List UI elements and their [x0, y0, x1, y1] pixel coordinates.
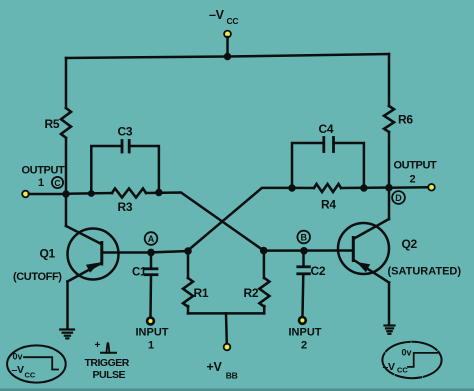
junction C3 left — [88, 190, 95, 197]
junction node D — [385, 184, 393, 192]
junction C4 left — [288, 184, 295, 191]
svg-text:BB: BB — [226, 371, 238, 381]
svg-text:B: B — [300, 233, 307, 243]
svg-text:Q2: Q2 — [402, 237, 418, 251]
wire Vbb tap — [225, 313, 228, 343]
wire output 2 lead — [389, 186, 428, 189]
terminal input 1 — [147, 318, 154, 325]
resistor R2 — [244, 251, 270, 314]
svg-text:2: 2 — [409, 174, 415, 186]
junction C4 right — [360, 184, 367, 191]
capacitor C2 — [298, 251, 326, 278]
terminal input 2 — [299, 317, 306, 324]
svg-text:+V: +V — [207, 360, 223, 374]
wire R3 to cross diagonal — [146, 193, 264, 251]
svg-text:–V: –V — [12, 364, 25, 376]
wire Q2 emitter down — [388, 283, 391, 326]
resistor R1 — [183, 251, 209, 313]
svg-text:CC: CC — [397, 366, 408, 375]
node B — [297, 231, 310, 244]
svg-text:A: A — [148, 234, 155, 244]
junction R3 right / C3 right — [155, 189, 162, 196]
svg-text:R5: R5 — [45, 117, 60, 131]
svg-text:CC: CC — [25, 371, 36, 380]
resistor R3 — [112, 189, 146, 215]
svg-text:–V: –V — [209, 8, 225, 22]
transistor Q1 — [40, 226, 152, 282]
node A — [145, 232, 158, 245]
terminal +Vbb — [224, 344, 231, 351]
svg-text:+: + — [95, 340, 101, 351]
waveform output 1 (0v to -Vcc) — [7, 345, 66, 382]
wire node B line — [264, 249, 354, 252]
wire output 1 lead — [29, 193, 66, 196]
svg-text:OUTPUT: OUTPUT — [394, 160, 438, 172]
svg-text:PULSE: PULSE — [93, 369, 126, 381]
svg-text:D: D — [395, 193, 402, 203]
transistor Q2 — [338, 219, 418, 283]
resistor R4 — [291, 184, 390, 212]
svg-text:C4: C4 — [319, 122, 334, 136]
wire node A to R1 junction — [151, 251, 188, 252]
capacitor C1 — [132, 252, 157, 278]
svg-text:0v: 0v — [402, 348, 412, 358]
label INPUT 2 — [289, 327, 322, 352]
junction node C — [62, 190, 69, 197]
terminal output 1 — [22, 191, 29, 198]
terminal output 2 — [428, 184, 435, 191]
wire cross diagonal R4 to node A side — [188, 188, 290, 250]
wire node C to R3 — [66, 192, 112, 195]
wire left vertical upper — [65, 58, 68, 108]
node D — [392, 191, 405, 204]
label +Vbb — [207, 360, 238, 381]
svg-text:(CUTOFF): (CUTOFF) — [13, 271, 62, 283]
junction R2 top — [260, 247, 268, 255]
wire top supply rail — [66, 54, 389, 58]
svg-text:R6: R6 — [398, 113, 413, 127]
svg-text:OUTPUT: OUTPUT — [22, 165, 66, 177]
wire -Vcc tap — [226, 37, 229, 57]
svg-text:R2: R2 — [244, 286, 259, 300]
svg-text:2: 2 — [301, 340, 307, 352]
wire right vertical lower — [388, 132, 391, 188]
junction -Vcc tap — [224, 53, 231, 60]
wire node D to Q2 collector — [388, 188, 391, 219]
svg-text:1: 1 — [38, 177, 44, 189]
ground Q1 — [60, 330, 74, 339]
label -Vcc — [209, 8, 238, 26]
label OUTPUT 2 — [394, 160, 438, 186]
label INPUT 1 — [136, 327, 169, 352]
wire left vertical lower — [65, 138, 68, 194]
svg-text:INPUT: INPUT — [136, 327, 169, 339]
label TRIGGER PULSE — [85, 357, 130, 381]
trigger pulse symbol — [95, 340, 117, 353]
svg-text:INPUT: INPUT — [289, 327, 322, 339]
ground Q2 — [385, 326, 395, 334]
svg-text:C: C — [54, 178, 60, 188]
svg-text:C2: C2 — [311, 264, 326, 278]
junction node A — [147, 249, 155, 257]
waveform output 2 (-Vcc to 0v) — [382, 342, 441, 378]
wire Q1 emitter down — [66, 282, 69, 330]
svg-text:R1: R1 — [194, 286, 209, 300]
junction R1 top — [184, 247, 192, 255]
resistor R5 — [45, 108, 72, 138]
wire input 2 lead — [301, 275, 304, 317]
junction node B — [300, 247, 308, 255]
svg-text:CC: CC — [227, 16, 239, 26]
capacitor C4 — [292, 122, 364, 188]
svg-text:C3: C3 — [118, 125, 133, 139]
wire R1 R2 bottom — [188, 312, 264, 315]
svg-text:R4: R4 — [321, 198, 336, 212]
terminal -Vcc — [224, 31, 231, 38]
svg-text:R3: R3 — [118, 200, 133, 214]
svg-text:1: 1 — [148, 340, 154, 352]
svg-text:Q1: Q1 — [40, 247, 56, 261]
capacitor C3 — [91, 125, 159, 194]
resistor R6 — [384, 106, 413, 132]
svg-text:(SATURATED): (SATURATED) — [388, 266, 462, 278]
label OUTPUT 1 — [22, 165, 66, 190]
svg-text:0v: 0v — [13, 352, 23, 362]
wire right vertical upper — [388, 54, 391, 106]
svg-text:–V: –V — [383, 361, 396, 373]
svg-text:C1: C1 — [132, 267, 147, 279]
svg-text:TRIGGER: TRIGGER — [85, 357, 130, 369]
node C — [52, 177, 63, 188]
wire left vertical to Q1 collector — [65, 194, 68, 226]
wire input 1 lead — [149, 276, 152, 318]
